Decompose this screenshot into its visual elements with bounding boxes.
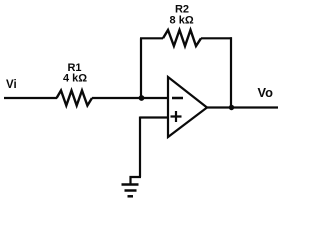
node junction dot at inverting input xyxy=(139,95,145,101)
op-amp non-inverting input plus sign xyxy=(171,111,182,122)
wire Vi to R1 xyxy=(4,97,57,99)
op-amp inverting input minus sign xyxy=(172,97,183,100)
wire feedback top left xyxy=(140,37,163,39)
op-amp U1 xyxy=(168,77,207,137)
wire R1 to inverting input xyxy=(92,97,167,99)
wire non-inverting input stub xyxy=(140,116,168,118)
resistor R1 xyxy=(57,91,92,106)
wire ground jog xyxy=(131,177,142,184)
wire feedback top right xyxy=(201,37,232,39)
wire output xyxy=(206,106,278,108)
wire non-inverting input down to ground xyxy=(139,117,141,178)
node junction dot at output xyxy=(229,105,234,110)
svg-text:8 kΩ: 8 kΩ xyxy=(170,15,194,27)
wire feedback left vertical xyxy=(140,38,142,98)
svg-text:Vo: Vo xyxy=(258,85,274,100)
resistor R2 xyxy=(163,30,201,46)
svg-text:4 kΩ: 4 kΩ xyxy=(63,73,87,85)
wire feedback right vertical xyxy=(230,37,232,107)
ground xyxy=(122,185,139,197)
svg-text:Vi: Vi xyxy=(6,79,17,91)
